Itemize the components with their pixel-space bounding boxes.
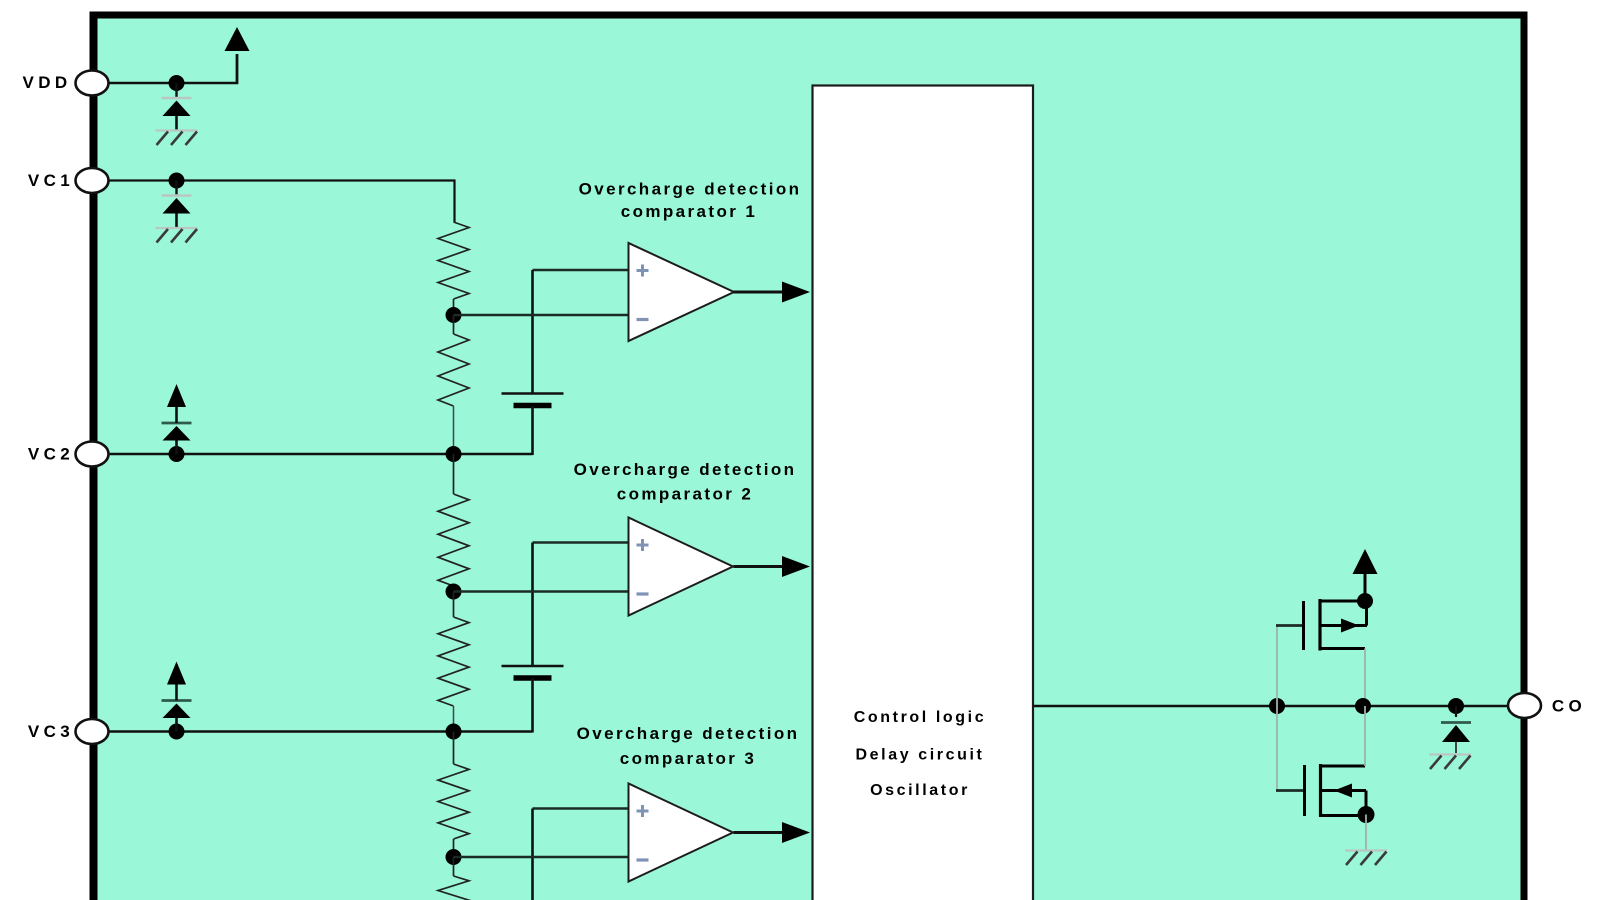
wire Q2 source to ground	[1365, 815, 1367, 851]
wire VC3	[108, 730, 533, 732]
wire comp1 + input	[533, 269, 629, 272]
node VC1 junction	[169, 173, 185, 189]
wire comp1 output arrow	[734, 291, 787, 294]
wire ref1 riser	[531, 270, 534, 394]
node VC3 junction	[169, 724, 185, 740]
wire B1 to VC2	[531, 406, 534, 455]
wire R2 to VC2	[453, 406, 455, 454]
svg-text:Overcharge detection: Overcharge detection	[574, 460, 797, 479]
svg-text:Control logic: Control logic	[854, 709, 986, 726]
wire VDD to junction	[108, 82, 238, 84]
wire comp3 output arrow	[734, 831, 787, 834]
wire block output to CO	[1034, 705, 1522, 708]
Q1 source lead	[1319, 600, 1366, 603]
pin VC2	[76, 442, 109, 467]
svg-text:Overcharge detection: Overcharge detection	[577, 724, 800, 743]
svg-text:comparator 3: comparator 3	[620, 749, 757, 768]
ESD diode at VC1	[175, 181, 177, 195]
ESD diode at VDD	[175, 83, 177, 97]
wire VC1 corner down	[453, 180, 455, 223]
pin VC3	[76, 719, 109, 744]
Q1 supply arrow	[1353, 549, 1378, 574]
wire VC2	[108, 453, 533, 455]
resistor R3	[453, 454, 455, 494]
transistor Q2 (NMOS) gate lead	[1276, 789, 1304, 792]
resistor R6	[453, 857, 455, 876]
battery B2 (reference)	[502, 665, 564, 668]
frame right border	[1521, 12, 1528, 900]
resistor R2	[453, 315, 455, 334]
svg-text:comparator 1: comparator 1	[621, 202, 758, 221]
wire comp3 - input	[454, 856, 629, 858]
wire gate bus up	[1276, 626, 1278, 707]
wire comp3 + input	[533, 807, 629, 810]
svg-text:VC1: VC1	[28, 171, 74, 190]
frame left border	[90, 12, 98, 900]
Q1 bulk lead with arrow	[1319, 624, 1368, 627]
Q2 gate bar	[1303, 765, 1306, 816]
wire Q1 drain drop	[1364, 649, 1366, 707]
ESD diode at VC2	[175, 441, 178, 455]
wire comp2 + input	[533, 541, 629, 544]
ground at CO diode	[1429, 753, 1471, 755]
node tap 1	[446, 307, 462, 323]
wire ref3 riser	[531, 809, 534, 900]
diode at CO	[1455, 706, 1457, 717]
wire VC1	[108, 179, 455, 181]
wire ref2 riser	[531, 543, 534, 667]
Q1 gate bar	[1302, 601, 1305, 650]
Q1 drain lead	[1319, 647, 1366, 650]
Q2 channel bar	[1319, 764, 1322, 817]
node VC3 tap	[446, 724, 462, 740]
svg-text:Delay circuit: Delay circuit	[856, 747, 985, 764]
node tap 2	[446, 584, 462, 600]
ground at Q2	[1345, 849, 1387, 851]
node VC2 junction	[169, 446, 185, 462]
block: control logic / delay circuit / oscillator	[813, 86, 1034, 900]
op-amp comparator 1	[629, 243, 735, 341]
wire Q2 drain riser	[1364, 706, 1366, 766]
wire B2 to VC3	[531, 678, 534, 733]
node VC2 tap	[446, 446, 462, 462]
frame top border	[90, 12, 1528, 19]
pin CO	[1508, 693, 1541, 718]
battery B1 (reference)	[502, 392, 564, 395]
node Q2 source	[1358, 806, 1375, 823]
Q2 source lead	[1319, 814, 1360, 817]
node VDD junction	[169, 75, 185, 91]
node tap 3	[446, 849, 462, 865]
Q2 bulk lead with arrow	[1319, 789, 1366, 792]
svg-text:Oscillator: Oscillator	[870, 782, 970, 799]
Q1 supply riser	[1364, 573, 1367, 601]
Q1 channel bar	[1318, 599, 1321, 651]
svg-text:VDD: VDD	[22, 73, 71, 92]
Q2 drain lead	[1319, 765, 1365, 768]
wire comp1 - input	[454, 314, 629, 316]
VDD supply arrow	[225, 27, 250, 51]
pin VDD	[76, 71, 109, 96]
op-amp comparator 2	[629, 518, 734, 616]
wire gate bus down	[1276, 706, 1278, 791]
wire comp2 output arrow	[734, 565, 787, 568]
pin VC1	[76, 168, 109, 193]
wire R1 to tap1	[453, 299, 455, 315]
node gate bus junction	[1269, 698, 1285, 714]
svg-text:VC2: VC2	[28, 445, 74, 464]
transistor Q1 (PMOS) gate lead	[1276, 624, 1303, 627]
node Q1 source	[1357, 593, 1373, 609]
ESD diode at VC3	[175, 718, 178, 732]
wire VDD riser	[236, 54, 239, 84]
resistor R5	[453, 732, 455, 765]
svg-text:CO: CO	[1552, 697, 1586, 716]
node CO diode junction	[1448, 698, 1464, 714]
node output junction	[1355, 698, 1371, 714]
svg-text:Overcharge detection: Overcharge detection	[579, 180, 802, 199]
op-amp comparator 3	[629, 784, 734, 882]
wire comp2 - input	[454, 590, 629, 592]
svg-text:VC3: VC3	[28, 722, 74, 741]
svg-text:comparator 2: comparator 2	[617, 485, 754, 504]
resistor R4	[453, 592, 455, 618]
resistor R1	[438, 222, 469, 299]
